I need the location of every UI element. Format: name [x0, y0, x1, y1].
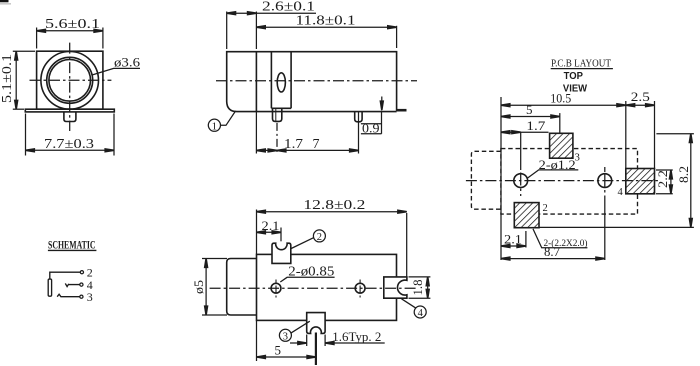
pcb main dashed outline: [501, 149, 638, 215]
pcb horizontal centerline: [466, 180, 658, 182]
svg-text:12.8±0.2: 12.8±0.2: [303, 198, 365, 213]
bottom view horizontal centerline: [210, 287, 417, 289]
corner mark: [0, 0, 11, 5]
svg-text:8.2: 8.2: [676, 166, 691, 183]
hole 2: [598, 174, 612, 188]
side view right SMD lead: [397, 109, 407, 112]
hole A: [271, 283, 281, 293]
schematic pin 4 wire with check contact: [65, 283, 80, 286]
svg-text:SCHEMATIC: SCHEMATIC: [48, 240, 96, 252]
dim 2.6±0.1 extension lines: [226, 12, 228, 50]
pin 3 lug (bottom tab): [307, 313, 325, 334]
dim 1.6Typ extension lines: [306, 335, 308, 347]
dim 1.6Typ arrows outside: [290, 342, 307, 344]
svg-text:1.6Typ. 2: 1.6Typ. 2: [332, 329, 381, 344]
svg-text:3: 3: [87, 290, 93, 304]
dim 2.6±0.1 dimension line with tail: [227, 12, 316, 14]
front view bottom tab: [64, 112, 76, 122]
dim 2.2 extension lines: [656, 169, 673, 171]
pad 3: [550, 133, 573, 158]
svg-text:2.1: 2.1: [504, 232, 522, 247]
pad4 extension lines up: [625, 101, 627, 169]
dim 2.2 dimension line: [670, 170, 672, 194]
dim 2.1: [501, 245, 526, 247]
svg-text:4: 4: [618, 187, 624, 198]
hole B: [355, 283, 365, 293]
svg-text:8.7: 8.7: [544, 244, 560, 259]
dim 1.7 / 7 extension lines: [255, 112, 257, 154]
balloon 2: [313, 230, 325, 242]
balloon 4: [414, 306, 426, 318]
dim 5.6±0.1 dimension line: [37, 30, 103, 32]
schematic sleeve: [48, 279, 51, 296]
schematic pin 3 terminal: [80, 295, 83, 298]
side view leg 1: [273, 108, 282, 121]
svg-text:P.C.B LAYOUT: P.C.B LAYOUT: [551, 59, 611, 70]
balloon 3: [279, 329, 291, 341]
svg-text:4: 4: [418, 308, 424, 319]
svg-text:5.1±0.1: 5.1±0.1: [0, 54, 15, 103]
pad 2: [514, 203, 539, 228]
dim 10.5 / 2.5 dimension line: [501, 104, 655, 106]
dim ø5 extension lines: [202, 258, 227, 260]
dim 8.7: [501, 258, 605, 260]
front view outer circle: [41, 52, 99, 110]
pin 2 lug (top tab): [272, 243, 291, 263]
hole2 vertical extension: [604, 167, 606, 172]
front view middle circle: [47, 57, 93, 103]
dim 11.8±0.1 extension line right: [396, 26, 398, 48]
side view front face line: [255, 52, 257, 112]
side view body outline: [227, 52, 397, 112]
svg-text:2: 2: [543, 203, 548, 214]
hole1 vertical extension: [520, 132, 522, 170]
svg-text:5.6±0.1: 5.6±0.1: [45, 17, 100, 32]
front view base plate: [25, 109, 114, 112]
svg-text:2-ø0.85: 2-ø0.85: [288, 264, 334, 279]
svg-text:10.5: 10.5: [550, 91, 571, 106]
front view inner circle ø3.6: [49, 60, 91, 102]
svg-text:2: 2: [317, 232, 322, 243]
0.9 dim down arrow: [381, 97, 383, 105]
svg-text:5: 5: [275, 343, 282, 358]
pad3 center extension: [559, 113, 561, 133]
bottom view barrel: [227, 259, 257, 316]
dim 11.8±0.1 dimension line: [256, 26, 396, 28]
schematic pin 3 wire with caret contact: [57, 294, 80, 297]
dim 1.8 extension lines: [409, 276, 431, 278]
side view mid section lines: [270, 52, 272, 109]
dim 1.7 dimension line: [501, 131, 549, 133]
dim 7.7±0.3 extension lines: [25, 114, 27, 156]
pad 4: [626, 169, 655, 194]
front view horizontal centerline: [30, 79, 112, 81]
pcb barrel dashed outline: [471, 151, 501, 209]
side view horizontal centerline: [216, 80, 417, 82]
side view oval hole: [277, 73, 285, 92]
dim 7.7±0.3 dimension line: [26, 149, 115, 151]
pin 4 contact (right): [384, 277, 407, 298]
svg-text:3: 3: [283, 331, 288, 342]
svg-text:1: 1: [212, 121, 218, 133]
dim 5.6±0.1 extension lines: [36, 28, 38, 49]
dim 12.8±0.2: [256, 210, 258, 255]
balloon 1: [208, 119, 220, 131]
svg-text:2.2: 2.2: [655, 170, 670, 188]
svg-text:7: 7: [313, 137, 320, 152]
hole 1: [514, 174, 528, 188]
svg-text:2.6±0.1: 2.6±0.1: [262, 0, 315, 15]
svg-text:2.1: 2.1: [262, 218, 280, 233]
bottom view body: [257, 254, 397, 320]
dim 5 (bottom view): [256, 320, 258, 361]
dim 5 dimension line: [501, 116, 560, 118]
svg-text:ø3.6: ø3.6: [114, 54, 141, 69]
svg-text:5: 5: [526, 102, 533, 117]
dim ø5 dimension line: [205, 259, 207, 316]
dim 1.7 / 7 dimension line: [256, 149, 358, 151]
dim 5.1±0.1 dimension line: [15, 51, 17, 109]
0.9 dim box lines: [361, 123, 382, 125]
dim 8.2 dimension line: [690, 134, 692, 228]
schematic pin 2 wire: [50, 272, 80, 279]
front view vertical centerline: [69, 43, 71, 131]
svg-text:11.8±0.1: 11.8±0.1: [296, 14, 356, 29]
dim 5.1±0.1 extension lines: [13, 50, 35, 52]
schematic pin 4 terminal: [80, 283, 83, 286]
svg-text:1.8: 1.8: [410, 280, 425, 296]
svg-text:TOP: TOP: [564, 71, 584, 82]
dim 1.8 dimension line: [427, 277, 429, 298]
dim 2.1 (bottom view): [280, 228, 282, 242]
side view leg 2: [355, 112, 362, 122]
front view body: [37, 51, 103, 109]
pcb left extension line: [500, 97, 502, 260]
svg-text:2.5: 2.5: [631, 89, 650, 104]
svg-text:ø5: ø5: [191, 280, 206, 294]
dim 8.2 extension lines: [656, 133, 694, 135]
svg-text:0.9: 0.9: [362, 122, 380, 136]
label ø3.6 leader: [92, 68, 140, 75]
svg-text:1.7: 1.7: [284, 137, 303, 152]
svg-text:7.7±0.3: 7.7±0.3: [44, 137, 94, 152]
svg-text:1.7: 1.7: [526, 118, 546, 133]
schematic pin 2 terminal: [80, 271, 83, 274]
